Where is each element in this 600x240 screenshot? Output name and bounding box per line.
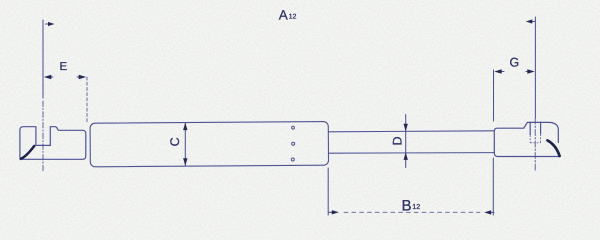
right end fitting outline: [494, 122, 558, 152]
svg-text:D: D: [391, 136, 405, 145]
dimension B extension line right: [492, 158, 494, 215]
cylinder end holes (3 small circles): [291, 126, 294, 161]
svg-text:G: G: [510, 55, 520, 69]
svg-text:E: E: [60, 61, 68, 73]
dimension B dashed line: [344, 211, 480, 213]
centerline left fitting (dash-dot): [42, 101, 44, 172]
dimension E extension line (dashed): [86, 77, 88, 122]
dimension A extension line left: [42, 20, 44, 98]
left end fitting outline: [20, 127, 86, 160]
dimension D line with arrows: [404, 115, 408, 168]
dimension G extension line left: [493, 70, 495, 121]
right fitting bottom edge: [494, 153, 559, 157]
right fitting thick flank curve: [548, 140, 560, 156]
svg-text:B: B: [402, 198, 412, 215]
piston rod bottom line: [328, 152, 494, 155]
dimension B arrows (pointing inward): [329, 210, 494, 214]
gas spring cylinder body: [90, 122, 328, 167]
dimension E arrows: [44, 75, 86, 80]
right fitting slot hidden edges (dotted): [529, 136, 531, 143]
dimension B extension line left: [327, 168, 329, 215]
left fitting thick flank curve: [21, 146, 35, 159]
dimension A extension line right: [534, 17, 536, 118]
right fitting slot solid edges: [530, 122, 540, 135]
svg-text:C: C: [168, 137, 182, 146]
svg-text:12: 12: [412, 202, 420, 211]
svg-text:12: 12: [289, 14, 297, 21]
dimension A arrow right: [526, 19, 535, 23]
label B12: [402, 198, 421, 215]
label A12: [279, 7, 297, 22]
dimension G arrows: [494, 69, 535, 74]
dimension A arrow left: [46, 22, 55, 26]
piston rod top line: [328, 131, 494, 132]
svg-text:A: A: [279, 7, 288, 22]
centerline right fitting (dash-dot): [534, 118, 536, 170]
dimension C line with arrows: [183, 123, 187, 166]
